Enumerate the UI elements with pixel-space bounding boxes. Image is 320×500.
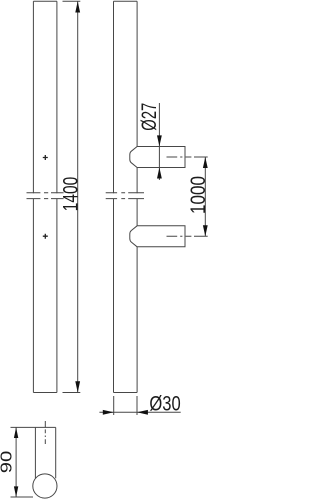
svg-text:Ø27: Ø27 xyxy=(138,103,161,131)
svg-text:1000: 1000 xyxy=(187,176,209,214)
svg-text:90: 90 xyxy=(0,450,16,473)
svg-text:Ø30: Ø30 xyxy=(149,392,180,415)
svg-text:1400: 1400 xyxy=(60,177,83,212)
